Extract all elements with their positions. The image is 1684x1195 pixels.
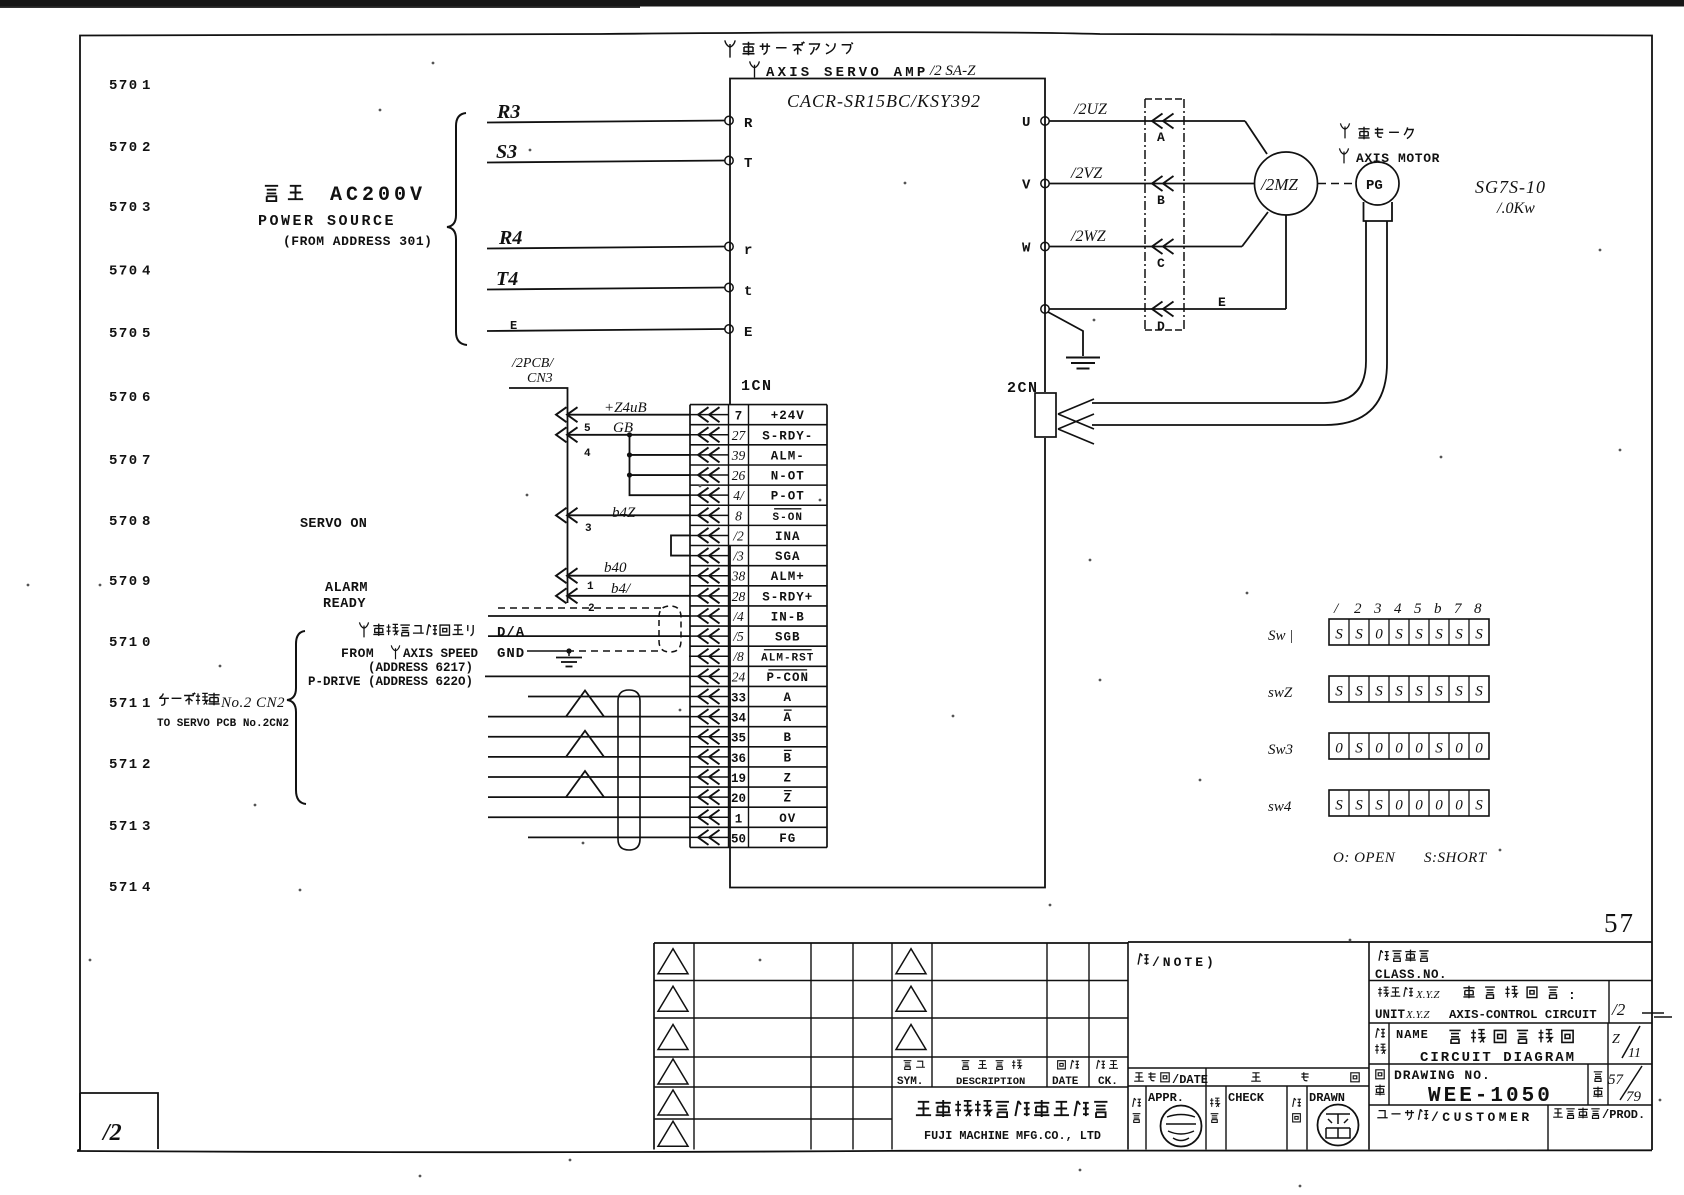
arrow into terminal A — [1152, 114, 1163, 129]
svg-text:S-RDY+: S-RDY+ — [762, 590, 813, 604]
terminal R — [725, 116, 733, 124]
svg-text:No.2 CN2: No.2 CN2 — [220, 695, 285, 711]
svg-text:/DATE: /DATE — [1172, 1073, 1208, 1087]
wire encoder row 16 — [488, 716, 690, 718]
wire E to motor — [1049, 308, 1286, 310]
svg-text:28: 28 — [732, 589, 746, 604]
svg-text:S: S — [1335, 798, 1343, 814]
svg-text:4/: 4/ — [733, 488, 745, 503]
svg-text:PG: PG — [1366, 178, 1383, 194]
svg-text:b40: b40 — [604, 560, 627, 576]
wire SGB (pin15) — [488, 635, 690, 637]
svg-text:570: 570 — [109, 574, 139, 590]
svg-text:b4Z: b4Z — [612, 505, 636, 521]
svg-text:570: 570 — [109, 78, 139, 94]
svg-text:0: 0 — [1395, 741, 1403, 757]
svg-text:b: b — [1434, 601, 1442, 617]
date row — [1205, 1068, 1207, 1086]
svg-text:/2WZ: /2WZ — [1070, 228, 1107, 245]
svg-text:57: 57 — [1608, 1072, 1625, 1088]
svg-text:8: 8 — [1474, 601, 1482, 617]
svg-text:INA: INA — [775, 530, 801, 544]
svg-text:570: 570 — [109, 326, 139, 342]
svg-text:S: S — [1455, 627, 1463, 643]
svg-text:S: S — [1435, 627, 1443, 643]
svg-text:AXIS MOTOR: AXIS MOTOR — [1356, 151, 1440, 166]
svg-text:20: 20 — [731, 792, 746, 806]
svg-text:4: 4 — [1394, 601, 1402, 617]
svg-text:D: D — [1157, 319, 1165, 334]
1CN pin 35 B — [689, 736, 729, 738]
svg-text:19: 19 — [731, 772, 746, 786]
svg-text:V: V — [1022, 178, 1031, 194]
svg-text:S: S — [1415, 684, 1423, 700]
svg-text:0: 0 — [1415, 741, 1423, 757]
svg-text:SG7S-10: SG7S-10 — [1475, 177, 1546, 197]
svg-text:S: S — [1335, 627, 1343, 643]
svg-text:/.0Kw: /.0Kw — [1496, 200, 1535, 217]
label Y axis speed (jp) — [359, 622, 368, 637]
svg-text:39: 39 — [731, 448, 746, 463]
svg-text:/2UZ: /2UZ — [1073, 101, 1108, 118]
terminal t — [725, 283, 733, 291]
1CN pin 28 S-RDY+ — [689, 595, 729, 597]
svg-text:2: 2 — [1354, 601, 1362, 617]
shield capsule dashed — [659, 606, 681, 652]
PG cable — [1092, 221, 1366, 403]
svg-text:4: 4 — [584, 448, 591, 460]
svg-text:33: 33 — [731, 691, 746, 705]
svg-text:27: 27 — [732, 428, 747, 443]
svg-text:t: t — [744, 284, 752, 300]
svg-text:R3: R3 — [496, 101, 520, 123]
svg-text:SGA: SGA — [775, 550, 801, 564]
svg-text:WEE-1050: WEE-1050 — [1428, 1085, 1553, 1108]
svg-text:FG: FG — [779, 832, 796, 846]
svg-text:E: E — [744, 325, 752, 341]
coupling dashed — [1318, 183, 1356, 185]
svg-text:0: 0 — [142, 635, 150, 651]
svg-text:B: B — [783, 751, 792, 765]
svg-text:/2PCB/: /2PCB/ — [511, 356, 554, 371]
svg-text:/2VZ: /2VZ — [1070, 165, 1103, 182]
svg-text:0: 0 — [1435, 798, 1443, 814]
1CN pin 15 SGB — [689, 635, 729, 637]
svg-text:CACR-SR15BC/KSY392: CACR-SR15BC/KSY392 — [787, 91, 981, 111]
svg-text:AXIS SERVO AMP: AXIS SERVO AMP — [766, 65, 928, 81]
cable arrows into 2CN — [1058, 399, 1094, 429]
connector 1CN table frame — [689, 405, 691, 848]
1CN pin 38 ALM+ — [689, 575, 729, 577]
svg-text:SGB: SGB — [775, 631, 801, 645]
stamp DRAWN (Ota) — [1318, 1105, 1359, 1146]
svg-text:/2: /2 — [101, 1120, 122, 1146]
1CN pin 7 +24V — [689, 414, 729, 416]
svg-text:Sw |: Sw | — [1268, 628, 1293, 644]
svg-text:4: 4 — [142, 264, 150, 280]
svg-text:79: 79 — [1626, 1089, 1642, 1105]
svg-text:A: A — [783, 711, 792, 725]
wire D/A (pin14 IN-B) — [488, 615, 690, 617]
svg-text:X.Y.Z: X.Y.Z — [1405, 1009, 1430, 1021]
revision header SYM/DESCRIPTION/DATE/CK — [904, 1061, 912, 1070]
wire 642 (pin8 S-ON) — [568, 514, 691, 516]
1CN pin 12 INA — [689, 534, 729, 536]
svg-text:Sw3: Sw3 — [1268, 742, 1293, 758]
1CN pin 18 ALM-RST — [689, 655, 729, 657]
1CN pin 1 OV — [689, 816, 729, 818]
svg-text:0: 0 — [1475, 741, 1483, 757]
svg-text:A: A — [1157, 130, 1165, 145]
svg-text:B: B — [783, 731, 792, 745]
svg-text:CIRCUIT DIAGRAM: CIRCUIT DIAGRAM — [1420, 1050, 1576, 1066]
svg-text:2: 2 — [588, 603, 595, 615]
svg-text:S: S — [1435, 741, 1443, 757]
svg-text:IN-B: IN-B — [771, 610, 805, 624]
arrow into terminal B — [1152, 176, 1163, 191]
svg-text:S3: S3 — [496, 141, 517, 163]
svg-text::: : — [1568, 988, 1576, 1003]
svg-text:A: A — [783, 691, 792, 705]
wire E to terminal E — [487, 329, 725, 331]
label DENGEN AC200V — [265, 186, 278, 201]
svg-text:571: 571 — [109, 757, 139, 773]
svg-text:S: S — [1395, 684, 1403, 700]
svg-text:570: 570 — [109, 140, 139, 156]
svg-text:SYM.: SYM. — [897, 1076, 923, 1088]
svg-text:S: S — [1355, 798, 1363, 814]
svg-text:AXIS-CONTROL CIRCUIT: AXIS-CONTROL CIRCUIT — [1449, 1008, 1597, 1022]
svg-text:8: 8 — [142, 514, 150, 530]
svg-text:1: 1 — [142, 78, 150, 94]
svg-text:6: 6 — [142, 390, 150, 406]
svg-text:5: 5 — [142, 326, 150, 342]
wire 641 (pin28 S-RDY+) — [568, 595, 691, 597]
svg-text:S: S — [1415, 627, 1423, 643]
CN2 brace — [287, 631, 306, 804]
svg-text:ALARM: ALARM — [325, 581, 368, 596]
svg-text:570: 570 — [109, 390, 139, 406]
wire 640 (pin38 ALM+) — [568, 575, 691, 577]
1CN pin 8 S-ON — [689, 514, 729, 516]
encoder shield capsule — [618, 690, 640, 850]
CN3 stub line — [509, 388, 568, 603]
shield dashed top — [498, 607, 662, 609]
svg-text:36: 36 — [731, 752, 746, 766]
1CN pin 33 A — [689, 695, 729, 697]
svg-text:1: 1 — [587, 581, 594, 593]
1CN pin 50 FG — [689, 836, 729, 838]
svg-text:DESCRIPTION: DESCRIPTION — [956, 1076, 1025, 1088]
1CN pin 39 ALM- — [689, 454, 729, 456]
PG body rect — [1364, 202, 1393, 221]
svg-text:/2: /2 — [1611, 1000, 1626, 1019]
wire R3 to terminal R — [487, 121, 725, 123]
svg-text:W: W — [1022, 241, 1031, 257]
svg-text:CN3: CN3 — [527, 371, 553, 386]
wire V phase — [1049, 183, 1254, 185]
jumper INA-SGA — [671, 535, 689, 555]
scan edge bar — [0, 0, 1684, 7]
svg-text:0: 0 — [1415, 798, 1423, 814]
svg-text:S:SHORT: S:SHORT — [1424, 850, 1488, 866]
svg-text:571: 571 — [109, 819, 139, 835]
arrow into terminal D — [1152, 302, 1163, 317]
wire S3 to terminal T — [487, 161, 725, 163]
svg-text:0: 0 — [1395, 798, 1403, 814]
svg-text:570: 570 — [109, 514, 139, 530]
ground at amp output — [1048, 312, 1083, 356]
svg-text:T: T — [744, 156, 752, 172]
svg-text:DRAWN: DRAWN — [1309, 1091, 1345, 1105]
svg-text:Z: Z — [783, 792, 792, 806]
svg-text:CLASS.NO.: CLASS.NO. — [1375, 968, 1447, 982]
svg-text:sw4: sw4 — [1268, 799, 1292, 815]
terminal r — [725, 242, 733, 250]
svg-text:+24V: +24V — [771, 409, 805, 423]
label Y AXIS SERVO AMP 12SA-Z — [750, 61, 760, 77]
label Y AXIS MOTOR — [1339, 148, 1348, 163]
arrow into terminal C — [1152, 239, 1163, 254]
svg-text:50: 50 — [731, 832, 746, 846]
svg-text:(ADDRESS 6217): (ADDRESS 6217) — [368, 661, 473, 675]
svg-text:Z: Z — [1612, 1032, 1620, 1047]
motor 12MZ — [1255, 152, 1318, 215]
svg-text:2CN: 2CN — [1007, 380, 1039, 397]
svg-text:8: 8 — [735, 508, 742, 523]
svg-text:2: 2 — [142, 757, 150, 773]
svg-text:3: 3 — [142, 819, 150, 835]
svg-text:GND: GND — [497, 646, 525, 662]
1CN pin 34 A — [689, 716, 729, 718]
svg-text:B: B — [1157, 193, 1165, 208]
1CN pin 20 Z — [689, 796, 729, 798]
svg-text:571: 571 — [109, 880, 139, 896]
svg-text:/CUSTOMER: /CUSTOMER — [1431, 1110, 1533, 1125]
svg-text:S: S — [1355, 684, 1363, 700]
1CN pin 36 B — [689, 756, 729, 758]
wire encoder row 21 — [488, 816, 690, 818]
svg-text:35: 35 — [731, 732, 746, 746]
svg-text:570: 570 — [109, 453, 139, 469]
motor terminal block (chain line) — [1144, 99, 1146, 330]
svg-text:r: r — [744, 243, 752, 259]
svg-text:CK.: CK. — [1098, 1076, 1118, 1088]
ground symbol (GND) — [568, 651, 570, 656]
wire W phase — [1049, 246, 1242, 248]
svg-text:DATE: DATE — [1052, 1076, 1079, 1088]
svg-text:ALM-RST: ALM-RST — [761, 653, 814, 665]
svg-text:7: 7 — [142, 453, 150, 469]
wire R4 to terminal r — [487, 247, 725, 249]
svg-text:57: 57 — [1604, 908, 1635, 938]
svg-text:S: S — [1435, 684, 1443, 700]
svg-text:S: S — [1375, 798, 1383, 814]
title block top edge — [1128, 941, 1652, 943]
svg-text:0: 0 — [1455, 798, 1463, 814]
svg-text:571: 571 — [109, 635, 139, 651]
svg-text:0: 0 — [1375, 741, 1383, 757]
svg-text:/2 SA-Z: /2 SA-Z — [929, 63, 976, 79]
svg-text:S: S — [1475, 684, 1483, 700]
svg-text:ALM-: ALM- — [771, 449, 805, 463]
svg-text:7: 7 — [735, 410, 743, 424]
twisted pair marks — [566, 690, 604, 716]
svg-text:FROM: FROM — [341, 646, 374, 661]
svg-text:S: S — [1335, 684, 1343, 700]
svg-text:(FROM ADDRESS 301): (FROM ADDRESS 301) — [283, 234, 432, 249]
svg-text:/NOTE): /NOTE) — [1152, 955, 1217, 970]
svg-text:AC200V: AC200V — [330, 184, 426, 207]
wire encoder row 19 — [488, 776, 690, 778]
1CN pin 26 N-OT — [689, 474, 729, 476]
svg-text:4: 4 — [142, 880, 150, 896]
svg-text:D/A: D/A — [497, 625, 525, 641]
terminal E (4th) — [1041, 305, 1049, 313]
svg-text:U: U — [1022, 115, 1030, 131]
1CN pin 41 P-OT — [689, 494, 729, 496]
svg-text:SERVO ON: SERVO ON — [300, 517, 367, 532]
svg-text:S: S — [1395, 627, 1403, 643]
svg-text:E: E — [1218, 295, 1226, 310]
svg-text:P-CON: P-CON — [766, 671, 809, 685]
svg-text:X.Y.Z: X.Y.Z — [1415, 989, 1440, 1001]
svg-text:2: 2 — [142, 140, 150, 156]
svg-text:26: 26 — [732, 468, 746, 483]
svg-text:APPR.: APPR. — [1148, 1091, 1184, 1105]
svg-text:5: 5 — [1414, 601, 1422, 617]
svg-text:P-DRIVE (ADDRESS 622O): P-DRIVE (ADDRESS 622O) — [308, 675, 473, 689]
sheet number box 12 — [80, 1093, 158, 1149]
wire GB (pin27) — [568, 434, 691, 436]
svg-text:38: 38 — [731, 569, 746, 584]
junction bus pins 27/39/26/41 — [630, 435, 691, 495]
svg-text:S: S — [1475, 627, 1483, 643]
svg-text:S: S — [1375, 684, 1383, 700]
svg-text:UNIT: UNIT — [1375, 1008, 1406, 1022]
svg-text:/4: /4 — [732, 609, 744, 624]
wire T4 to terminal t — [487, 288, 725, 290]
Fuji Machine company name — [916, 1102, 931, 1115]
label axis servo amp (jp) — [725, 40, 735, 57]
svg-text:0: 0 — [1455, 741, 1463, 757]
svg-text:/PROD.: /PROD. — [1602, 1108, 1645, 1122]
svg-text:3: 3 — [142, 200, 150, 216]
1CN pin 14 IN-B — [689, 615, 729, 617]
svg-text:S: S — [1355, 627, 1363, 643]
1CN pin 19 Z — [689, 776, 729, 778]
svg-text:FUJI MACHINE MFG.CO., LTD: FUJI MACHINE MFG.CO., LTD — [924, 1129, 1101, 1143]
power source brace — [447, 113, 467, 345]
svg-text:S-ON: S-ON — [773, 512, 803, 524]
svg-text:R: R — [744, 116, 753, 132]
wire encoder row 15 — [528, 695, 690, 697]
svg-text:swZ: swZ — [1268, 685, 1293, 701]
stamp row — [1145, 1086, 1147, 1150]
svg-text:N-OT: N-OT — [771, 470, 805, 484]
wire encoder row 22 — [528, 836, 690, 838]
svg-text:34: 34 — [731, 712, 747, 726]
1CN pin 27 S-RDY- — [689, 434, 729, 436]
svg-text:5: 5 — [584, 423, 591, 435]
svg-text:READY: READY — [323, 597, 366, 612]
svg-text:/3: /3 — [732, 549, 744, 564]
NOTE cell — [1128, 1067, 1369, 1069]
svg-text:1CN: 1CN — [741, 378, 773, 395]
svg-text:ALM+: ALM+ — [771, 570, 805, 584]
svg-text:T4: T4 — [496, 268, 518, 290]
svg-text:24: 24 — [732, 669, 746, 684]
svg-text:CHECK: CHECK — [1228, 1091, 1265, 1105]
servo amp SA-Z box — [730, 79, 1045, 888]
svg-text:OV: OV — [779, 812, 796, 826]
svg-text:POWER SOURCE: POWER SOURCE — [258, 213, 396, 230]
svg-text:DRAWING NO.: DRAWING NO. — [1394, 1068, 1491, 1083]
svg-text:E: E — [510, 319, 517, 333]
label axis motor (jp) — [1340, 123, 1349, 138]
svg-text:570: 570 — [109, 264, 139, 280]
svg-text:9: 9 — [142, 574, 150, 590]
svg-text:11: 11 — [1628, 1046, 1641, 1061]
svg-text:P-OT: P-OT — [771, 490, 805, 504]
svg-text:0: 0 — [1335, 741, 1343, 757]
encoder PG — [1356, 162, 1399, 205]
svg-text:1: 1 — [142, 696, 150, 712]
svg-text:S: S — [1475, 798, 1483, 814]
speckles — [529, 149, 532, 152]
svg-text:TO SERVO PCB No.2CN2: TO SERVO PCB No.2CN2 — [157, 718, 289, 730]
svg-text:/5: /5 — [732, 629, 744, 644]
svg-text:1: 1 — [735, 812, 743, 826]
wire +24UB (pin7) — [568, 414, 691, 416]
svg-text:b4/: b4/ — [611, 581, 632, 597]
svg-text:+Z4uB: +Z4uB — [604, 400, 647, 416]
svg-text:/2: /2 — [732, 528, 744, 543]
terminal T — [725, 156, 733, 164]
svg-text:570: 570 — [109, 200, 139, 216]
label PCB No.2 CN2 (jp) — [159, 693, 169, 705]
wire U phase — [1049, 120, 1245, 122]
wire encoder row 20 — [488, 796, 690, 798]
svg-text:0: 0 — [1375, 627, 1383, 643]
svg-text:S: S — [1355, 741, 1363, 757]
svg-text:R4: R4 — [498, 227, 522, 249]
svg-text:NAME: NAME — [1396, 1028, 1429, 1042]
svg-text:C: C — [1157, 256, 1165, 271]
svg-text:3: 3 — [585, 523, 592, 535]
svg-text:S: S — [1455, 684, 1463, 700]
wire encoder row 18 — [488, 756, 690, 758]
wire encoder row 17 — [488, 736, 690, 738]
revision triangles — [658, 949, 688, 974]
class/unit/name/drawing cells — [1368, 942, 1370, 1150]
svg-text:3: 3 — [1373, 601, 1382, 617]
terminal E — [725, 325, 733, 333]
svg-text:Z: Z — [783, 772, 792, 786]
stamp APPR — [1161, 1106, 1202, 1147]
title block revision table — [654, 942, 1128, 944]
svg-text:/8: /8 — [732, 649, 744, 664]
1CN pin 24 P-CON — [689, 675, 729, 677]
svg-text:AXIS SPEED: AXIS SPEED — [403, 647, 479, 661]
svg-text:571: 571 — [109, 696, 139, 712]
svg-text:S-RDY-: S-RDY- — [762, 429, 813, 443]
svg-text:O: OPEN: O: OPEN — [1333, 850, 1396, 866]
1CN pin 13 SGA — [689, 555, 729, 557]
svg-text:/2MZ: /2MZ — [1260, 175, 1298, 194]
